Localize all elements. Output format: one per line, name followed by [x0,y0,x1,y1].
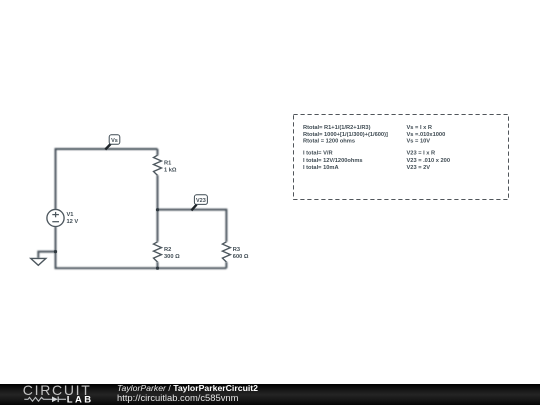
svg-text:V23 = I x R: V23 = I x R [407,151,436,157]
svg-text:Vs: Vs [111,138,118,144]
svg-text:Rtotal = 1200 ohms: Rtotal = 1200 ohms [303,139,355,145]
svg-text:LAB: LAB [67,395,94,405]
svg-text:R1: R1 [164,161,171,167]
svg-text:I total= 12V/1200ohms: I total= 12V/1200ohms [303,158,363,164]
svg-text:R2: R2 [164,247,171,253]
svg-text:Vs = 10V: Vs = 10V [407,139,431,145]
svg-text:300 Ω: 300 Ω [164,254,180,260]
svg-text:600 Ω: 600 Ω [233,254,249,260]
svg-text:Vs =.010x1000: Vs =.010x1000 [407,132,446,138]
svg-text:Rtotal= R1+1/(1/R2+1/R3): Rtotal= R1+1/(1/R2+1/R3) [303,125,371,131]
svg-text:V23 = .010 x 200: V23 = .010 x 200 [407,158,450,164]
svg-text:Vs = I x R: Vs = I x R [407,125,432,131]
svg-text:12 V: 12 V [67,219,79,225]
svg-text:I total= V/R: I total= V/R [303,151,333,157]
svg-text:R3: R3 [233,247,240,253]
svg-text:V1: V1 [67,212,74,218]
svg-text:V23 = 2V: V23 = 2V [407,165,431,171]
svg-text:I total= 10mA: I total= 10mA [303,165,339,171]
svg-text:V23: V23 [196,198,206,204]
svg-text:1 kΩ: 1 kΩ [164,168,177,174]
svg-text:Rtotal= 1000+[1/(1/300)+(1/600: Rtotal= 1000+[1/(1/300)+(1/600)] [303,132,388,138]
